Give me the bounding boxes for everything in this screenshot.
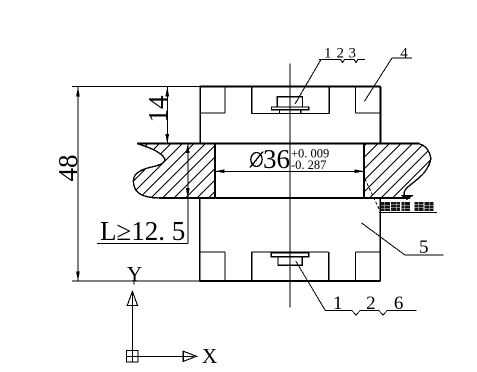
bolt top: washer bbox=[272, 107, 309, 110]
top notch box right bbox=[356, 87, 381, 114]
dimension diameter 36 bbox=[215, 144, 364, 174]
bottom hub block outline bbox=[200, 198, 381, 281]
callout chinese mating-face note bbox=[365, 179, 437, 213]
svg-text:L≥12. 5: L≥12. 5 bbox=[100, 216, 185, 246]
bore right wall bbox=[363, 144, 365, 199]
svg-text:6: 6 bbox=[394, 293, 404, 314]
callout 1 2 3 bbox=[295, 46, 365, 105]
dimension 48 bbox=[53, 87, 200, 282]
svg-text:4: 4 bbox=[400, 45, 408, 61]
svg-text:1: 1 bbox=[333, 293, 343, 314]
svg-text:2: 2 bbox=[337, 46, 345, 62]
svg-text:48: 48 bbox=[53, 155, 83, 182]
svg-text:X: X bbox=[202, 344, 217, 368]
svg-text:14: 14 bbox=[143, 95, 173, 123]
bolt bottom: washer bbox=[271, 253, 308, 257]
svg-text:5: 5 bbox=[419, 237, 429, 258]
top notch box center bbox=[252, 87, 330, 114]
callout 5 bbox=[362, 223, 444, 258]
svg-text:-0. 287: -0. 287 bbox=[291, 158, 326, 172]
svg-text:2: 2 bbox=[366, 293, 376, 314]
rim band top line bbox=[137, 143, 419, 145]
bottom notch box center bbox=[252, 252, 329, 281]
rim band bottom line bbox=[159, 197, 410, 199]
dimension 14 bbox=[143, 87, 173, 144]
svg-text:Y: Y bbox=[127, 262, 142, 286]
ucs icon bbox=[127, 262, 218, 368]
bolt top: neck bbox=[279, 110, 300, 114]
top notch box left bbox=[200, 87, 225, 114]
bolt top: head bbox=[277, 97, 302, 107]
dimension L>=12.5 bbox=[97, 144, 190, 247]
svg-text:36: 36 bbox=[263, 144, 290, 174]
svg-text:1: 1 bbox=[324, 46, 332, 62]
callout 4 bbox=[364, 45, 412, 101]
top hub block outline bbox=[200, 87, 381, 144]
svg-text:3: 3 bbox=[349, 46, 357, 62]
bottom notch box left bbox=[200, 252, 225, 281]
bottom notch box right bbox=[356, 252, 381, 281]
left hatched rim section bbox=[120, 100, 307, 212]
bore left wall bbox=[214, 144, 216, 199]
callout 1 2 6 bbox=[296, 261, 417, 315]
right hatched rim section bbox=[350, 98, 477, 212]
centerline bbox=[289, 64, 291, 308]
bolt bottom: head bbox=[278, 257, 302, 266]
